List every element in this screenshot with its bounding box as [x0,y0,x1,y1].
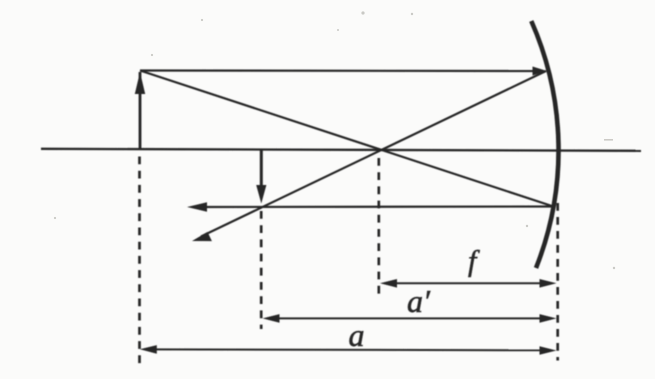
svg-text:a: a [349,317,365,353]
image arrow (downward) at x=261 [256,151,266,204]
wire: ray from object tip through focus F to mirror bottom [140,71,555,208]
wire: reflected horizontal ray going left [187,202,555,212]
concave mirror arc [531,21,558,268]
wire: reflected ray from mirror top through focus F, exits lower-left [192,71,546,241]
wire: top parallel ray from object tip to mirror [140,67,547,76]
dimension a (object distance) [140,345,557,355]
dashed mirror vertex line at x=557.7 [556,203,559,361]
optical axis [41,149,641,151]
dashed image distance line at x=261.2 [260,211,263,329]
dashed focal line at x=378.8 [377,158,380,294]
svg-text:a′: a′ [407,283,431,319]
dimension a' (image distance) [263,314,557,323]
dashed object distance line at x=139.5 [138,157,141,364]
object arrow (upward) at x=140 [135,72,145,150]
dimension f (focal length) [380,279,557,288]
paper speckles [54,11,615,269]
